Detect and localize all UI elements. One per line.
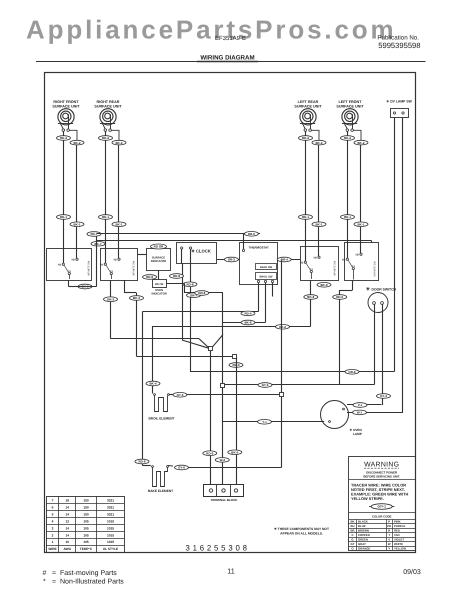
svg-text:316255308: 316255308 — [186, 544, 250, 553]
svg-text:TAN: TAN — [394, 533, 400, 537]
svg-text:OR-6: OR-6 — [348, 370, 355, 374]
svg-text:BK-8: BK-8 — [307, 295, 314, 299]
svg-text:Non-Illustrated Parts: Non-Illustrated Parts — [60, 578, 124, 586]
svg-text:LEFT REAR: LEFT REAR — [298, 100, 319, 104]
svg-text:RD-8: RD-8 — [173, 274, 180, 278]
svg-text:✳ THESE COMPONENTS MAY NOT: ✳ THESE COMPONENTS MAY NOT — [274, 527, 329, 531]
svg-text:UL STYLE: UL STYLE — [103, 547, 118, 551]
svg-text:3321: 3321 — [107, 505, 114, 509]
svg-text:5995395598: 5995395598 — [378, 41, 420, 50]
svg-text:P: P — [388, 520, 390, 524]
svg-text:RD OR: RD OR — [155, 283, 163, 286]
svg-text:RED: RED — [394, 529, 400, 533]
svg-text:✳: ✳ — [366, 287, 370, 292]
svg-text:G: G — [351, 538, 353, 542]
svg-text:2: 2 — [52, 533, 54, 537]
svg-text:OR-8: OR-8 — [198, 291, 205, 295]
svg-text:12: 12 — [65, 519, 69, 523]
svg-text:BAKE ELEMENT: BAKE ELEMENT — [148, 489, 173, 493]
svg-text:7: 7 — [52, 498, 54, 502]
svg-text:Y: Y — [388, 546, 390, 550]
svg-text:1015: 1015 — [107, 519, 114, 523]
svg-text:RD-1: RD-1 — [102, 215, 109, 219]
svg-text:BK-2: BK-2 — [115, 141, 122, 145]
svg-text:RD-1: RD-1 — [344, 215, 351, 219]
svg-text:10: 10 — [65, 540, 69, 544]
svg-text:1015: 1015 — [107, 533, 114, 537]
svg-text:1: 1 — [52, 540, 54, 544]
svg-text:105: 105 — [83, 519, 89, 523]
svg-text:ORANGE: ORANGE — [358, 546, 370, 550]
svg-text:=: = — [52, 570, 56, 577]
svg-text:105: 105 — [83, 533, 89, 537]
svg-text:GY-5: GY-5 — [177, 393, 184, 397]
svg-text:#: # — [43, 570, 47, 577]
svg-text:THERMOSTAT: THERMOSTAT — [249, 246, 270, 250]
svg-text:EF351A9-E: EF351A9-E — [215, 35, 246, 42]
svg-text:SURFACE UNIT: SURFACE UNIT — [52, 104, 80, 108]
svg-text:150: 150 — [83, 505, 89, 509]
svg-text:INFINITE SW: INFINITE SW — [88, 260, 91, 276]
svg-text:BAKE SW: BAKE SW — [260, 266, 273, 269]
svg-text:INFINITE SW: INFINITE SW — [334, 260, 337, 276]
svg-text:BK-2: BK-2 — [315, 141, 322, 145]
svg-text:R: R — [388, 529, 390, 533]
svg-text:PR: PR — [387, 524, 391, 528]
svg-text:4: 4 — [52, 519, 54, 523]
svg-text:14: 14 — [65, 505, 69, 509]
svg-text:RD-2: RD-2 — [60, 136, 67, 140]
svg-text:105: 105 — [83, 526, 89, 530]
svg-text:GY-4: GY-4 — [380, 394, 387, 398]
svg-text:W: W — [388, 542, 391, 546]
svg-text:BK-6: BK-6 — [244, 321, 251, 325]
svg-text:COLOR CODE: COLOR CODE — [372, 514, 392, 518]
svg-text:BK-2: BK-2 — [357, 141, 364, 145]
svg-text:105: 105 — [83, 540, 89, 544]
svg-text:BK-1: BK-1 — [73, 222, 80, 226]
svg-text:GY-6: GY-6 — [178, 466, 185, 470]
svg-text:RIGHT FRONT: RIGHT FRONT — [53, 100, 79, 104]
svg-text:RIGHT REAR: RIGHT REAR — [97, 100, 120, 104]
svg-text:BK-2: BK-2 — [73, 141, 80, 145]
svg-text:3: 3 — [52, 526, 54, 530]
svg-text:YELLOW STRIPE.: YELLOW STRIPE. — [351, 496, 384, 501]
svg-text:W-1: W-1 — [357, 411, 363, 415]
svg-text:150: 150 — [83, 512, 89, 516]
svg-text:Fast-moving Parts: Fast-moving Parts — [60, 569, 117, 577]
svg-text:=: = — [52, 579, 56, 586]
svg-text:VIOLET: VIOLET — [394, 538, 404, 542]
svg-text:RD-8: RD-8 — [186, 282, 193, 286]
svg-text:SURFACE UNIT: SURFACE UNIT — [294, 104, 322, 108]
svg-text:BROIL SW: BROIL SW — [260, 275, 273, 278]
svg-text:DOOR SWITCH: DOOR SWITCH — [372, 288, 397, 292]
svg-text:BEFORE SERVICING UNIT.: BEFORE SERVICING UNIT. — [363, 474, 400, 478]
svg-text:1015: 1015 — [107, 526, 114, 530]
svg-text:RD-2: RD-2 — [102, 136, 109, 140]
svg-text:BK-1: BK-1 — [357, 222, 364, 226]
svg-text:BLACK: BLACK — [358, 520, 368, 524]
svg-text:G/Y-1: G/Y-1 — [377, 505, 386, 509]
svg-text:GY: GY — [350, 542, 354, 546]
svg-text:BROIL ELEMENT: BROIL ELEMENT — [149, 417, 175, 421]
svg-text:14: 14 — [65, 526, 69, 530]
svg-text:RD-1: RD-1 — [60, 215, 67, 219]
svg-text:RD-0: RD-0 — [206, 451, 213, 455]
svg-text:INFINITE SW: INFINITE SW — [374, 261, 377, 277]
svg-text:WHITE: WHITE — [394, 542, 403, 546]
svg-text:GRAY: GRAY — [358, 542, 366, 546]
svg-text:18: 18 — [65, 498, 69, 502]
svg-text:INDICATOR: INDICATOR — [151, 259, 166, 263]
svg-text:BK-1: BK-1 — [115, 222, 122, 226]
svg-text:RD-2: RD-2 — [302, 136, 309, 140]
svg-text:RD-2: RD-2 — [344, 136, 351, 140]
svg-text:1015: 1015 — [107, 540, 114, 544]
svg-text:✳ CLOCK: ✳ CLOCK — [191, 249, 211, 254]
svg-text:Y-1: Y-1 — [262, 420, 267, 424]
svg-text:✳ OV LAMP SW: ✳ OV LAMP SW — [386, 100, 412, 104]
svg-text:APPEAR ON ALL MODELS.: APPEAR ON ALL MODELS. — [280, 531, 323, 535]
svg-text:BK-3: BK-3 — [133, 296, 140, 300]
svg-text:RD-4: RD-4 — [244, 312, 251, 316]
svg-text:C: C — [351, 533, 353, 537]
svg-text:INFINITE SW: INFINITE SW — [133, 260, 136, 276]
svg-text:PURPLE: PURPLE — [394, 524, 405, 528]
svg-text:BK-4: BK-4 — [149, 382, 156, 386]
svg-text:GREEN: GREEN — [358, 538, 368, 542]
svg-text:BK-0: BK-0 — [231, 450, 238, 454]
svg-text:GY-2: GY-2 — [279, 325, 286, 329]
svg-text:3321: 3321 — [107, 512, 114, 516]
svg-text:RD-9: RD-9 — [146, 275, 153, 279]
svg-text:150: 150 — [83, 498, 89, 502]
svg-text:AWG: AWG — [63, 547, 71, 551]
svg-text:09/03: 09/03 — [403, 568, 421, 576]
svg-text:RD OR: RD OR — [154, 245, 165, 249]
svg-text:*: * — [43, 579, 46, 586]
svg-text:RD-5: RD-5 — [336, 295, 343, 299]
svg-text:TEMP°C: TEMP°C — [80, 547, 93, 551]
svg-text:WIRING DIAGRAM: WIRING DIAGRAM — [200, 55, 254, 62]
svg-text:SURFACE UNIT: SURFACE UNIT — [94, 104, 122, 108]
svg-text:BK-1: BK-1 — [315, 222, 322, 226]
svg-text:RD-6: RD-6 — [138, 460, 145, 464]
svg-text:14: 14 — [65, 533, 69, 537]
svg-text:T: T — [388, 533, 390, 537]
svg-text:INDICATOR: INDICATOR — [152, 292, 167, 296]
svg-text:BROWN: BROWN — [358, 529, 369, 533]
svg-text:AppliancePartsPros.com: AppliancePartsPros.com — [26, 15, 396, 45]
svg-text:BK-9: BK-9 — [320, 283, 327, 287]
svg-text:LEFT FRONT: LEFT FRONT — [339, 100, 363, 104]
svg-text:RD-1: RD-1 — [302, 215, 309, 219]
svg-text:YELLOW: YELLOW — [394, 546, 406, 550]
svg-text:COPPER: COPPER — [358, 533, 370, 537]
svg-text:3321: 3321 — [107, 498, 114, 502]
svg-text:PINK: PINK — [394, 520, 401, 524]
svg-text:BU: BU — [350, 524, 354, 528]
svg-text:BR: BR — [350, 529, 354, 533]
svg-text:5: 5 — [52, 512, 54, 516]
svg-text:6: 6 — [52, 505, 54, 509]
svg-text:BLUE: BLUE — [358, 524, 366, 528]
svg-text:14: 14 — [65, 512, 69, 516]
svg-text:TERMINAL BLOCK: TERMINAL BLOCK — [211, 498, 239, 502]
svg-text:WIRE: WIRE — [48, 547, 56, 551]
svg-text:W-2: W-2 — [220, 458, 226, 462]
svg-text:GY-3: GY-3 — [262, 383, 269, 387]
svg-text:LAMP: LAMP — [353, 432, 362, 436]
svg-text:V: V — [388, 538, 390, 542]
svg-text:V-1: V-1 — [358, 403, 363, 407]
svg-text:BK: BK — [350, 520, 354, 524]
svg-text:OR-2: OR-2 — [228, 258, 235, 262]
svg-text:SURFACE UNIT: SURFACE UNIT — [336, 104, 364, 108]
svg-text:RD-7: RD-7 — [90, 232, 97, 236]
svg-text:OR-3: OR-3 — [107, 297, 114, 301]
svg-text:WARNING: WARNING — [364, 462, 399, 469]
svg-text:BK-7: BK-7 — [94, 242, 101, 246]
svg-text:11: 11 — [227, 567, 234, 576]
svg-text:OR-5: OR-5 — [248, 232, 255, 236]
